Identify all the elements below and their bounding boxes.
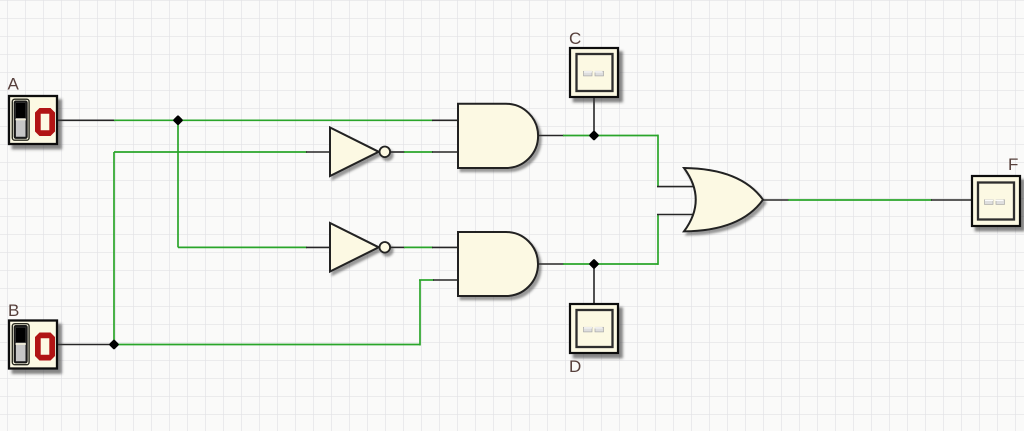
wire NOT2 input stub [306,246,330,248]
probe F [972,176,1020,226]
svg-text:B: B [8,301,19,320]
wire net A horizontal to AND1 [114,119,433,121]
wire OR input upper stub [657,186,693,188]
input A digit 0 [35,108,55,136]
probe F inner square [978,183,1014,220]
probe D inner square [577,310,613,347]
wire net NOT2-AND2 [404,246,433,248]
junction node C [589,130,600,141]
wire net A to NOT2 [178,246,307,248]
svg-text:A: A [8,75,20,94]
wire AND2 input stub upper [432,246,458,248]
wire net B vertical up to AND2 [419,280,421,346]
wire B output pin (black) [57,344,115,346]
wire NOT1 output stub [390,151,405,153]
wire net F [788,199,932,201]
wire OR output stub [763,199,789,201]
probe D [570,304,618,353]
AND gate 1 [458,104,538,168]
wire net C horizontal [563,135,658,137]
svg-text:C: C [569,29,581,48]
wire net C vertical down to OR [657,135,659,187]
wire AND1 input stub lower [432,151,458,153]
input B digit 0 [35,333,55,361]
wire NOT1 input stub [306,151,330,153]
wire OR input lower stub [657,214,693,216]
wire A output pin (black) [57,119,115,121]
wire AND1 output stub [538,135,564,137]
probe C inner square [577,54,613,91]
svg-text:F: F [1008,155,1018,174]
svg-text:D: D [569,357,581,376]
wire net A vertical branch [177,120,179,247]
junction node A [173,115,184,126]
logic input A [9,96,57,144]
probe D dashes [584,327,604,332]
probe F dashes [985,200,1005,205]
OR gate [684,168,763,231]
wire AND2 input B stub [433,279,458,281]
AND gate 2 [458,232,538,296]
inverter NOT1 [330,128,390,177]
input A toggle [12,99,29,140]
probe C [570,48,618,97]
wire AND1 input A stub [432,119,458,121]
wire probe D pin [593,264,595,305]
wire probe C pin [593,96,595,135]
wire net D horizontal [563,263,658,265]
wire probe F pin [931,199,972,201]
junction node B [109,339,120,350]
wire net NOT1-AND1 [404,151,433,153]
probe C dashes [584,71,604,76]
wire net B vertical branch [113,152,115,346]
logic input B [9,321,57,369]
wire net B short to AND2 pin [419,279,434,281]
wire net B to NOT1 [114,151,307,153]
inverter NOT2 [330,223,390,272]
wire NOT2 output stub [390,246,405,248]
wire AND2 output stub [538,263,564,265]
wire net B horizontal to AND2 [114,344,420,346]
input B toggle [12,324,29,365]
junction node D [589,259,600,270]
wire net D vertical up to OR [657,214,659,265]
